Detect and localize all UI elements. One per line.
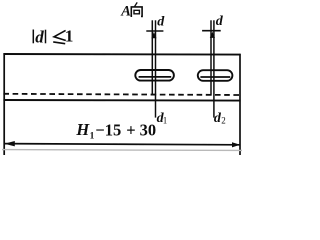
svg-text:d: d bbox=[216, 14, 224, 29]
faint scan shadow line bbox=[2, 149, 242, 152]
svg-text:30: 30 bbox=[140, 120, 157, 139]
d1 dimension tick bbox=[146, 30, 163, 32]
busbar bottom edge bbox=[3, 99, 240, 102]
svg-text:1: 1 bbox=[65, 27, 74, 46]
d2 actual centerline bbox=[213, 20, 215, 117]
d1 actual centerline bbox=[155, 20, 157, 117]
d2 dimension tick bbox=[202, 30, 221, 32]
svg-text:+: + bbox=[126, 120, 135, 139]
svg-text:2: 2 bbox=[221, 116, 226, 126]
tolerance note |d| <= 1 bbox=[33, 27, 73, 47]
svg-text:d: d bbox=[157, 14, 165, 29]
busbar top edge bbox=[3, 53, 240, 56]
d1 nominal centerline bbox=[151, 20, 153, 95]
svg-text:H: H bbox=[75, 120, 90, 139]
busbar left edge + extension line bbox=[3, 53, 5, 155]
hidden edge dashed line bbox=[3, 94, 240, 95]
busbar right edge + extension line bbox=[239, 54, 241, 155]
dimension line H1-15+30 bbox=[4, 144, 240, 145]
dimension text H1-15+30 bbox=[75, 120, 156, 141]
svg-text:A: A bbox=[120, 4, 131, 20]
svg-text:d: d bbox=[35, 28, 44, 47]
svg-text:1: 1 bbox=[90, 131, 95, 141]
right arrowhead bbox=[232, 142, 240, 147]
left arrowhead bbox=[4, 141, 15, 146]
slot 1 centerline bbox=[139, 76, 172, 78]
svg-text:−15: −15 bbox=[95, 120, 121, 139]
d2 nominal centerline bbox=[210, 20, 212, 95]
slot 2 outline bbox=[198, 70, 233, 81]
slot 2 centerline bbox=[200, 76, 230, 78]
view label A向 bbox=[120, 2, 142, 19]
svg-text:1: 1 bbox=[163, 116, 168, 126]
d2 arrow bbox=[210, 32, 215, 38]
slot 1 outline bbox=[135, 70, 174, 81]
d1 arrow bbox=[151, 32, 156, 38]
